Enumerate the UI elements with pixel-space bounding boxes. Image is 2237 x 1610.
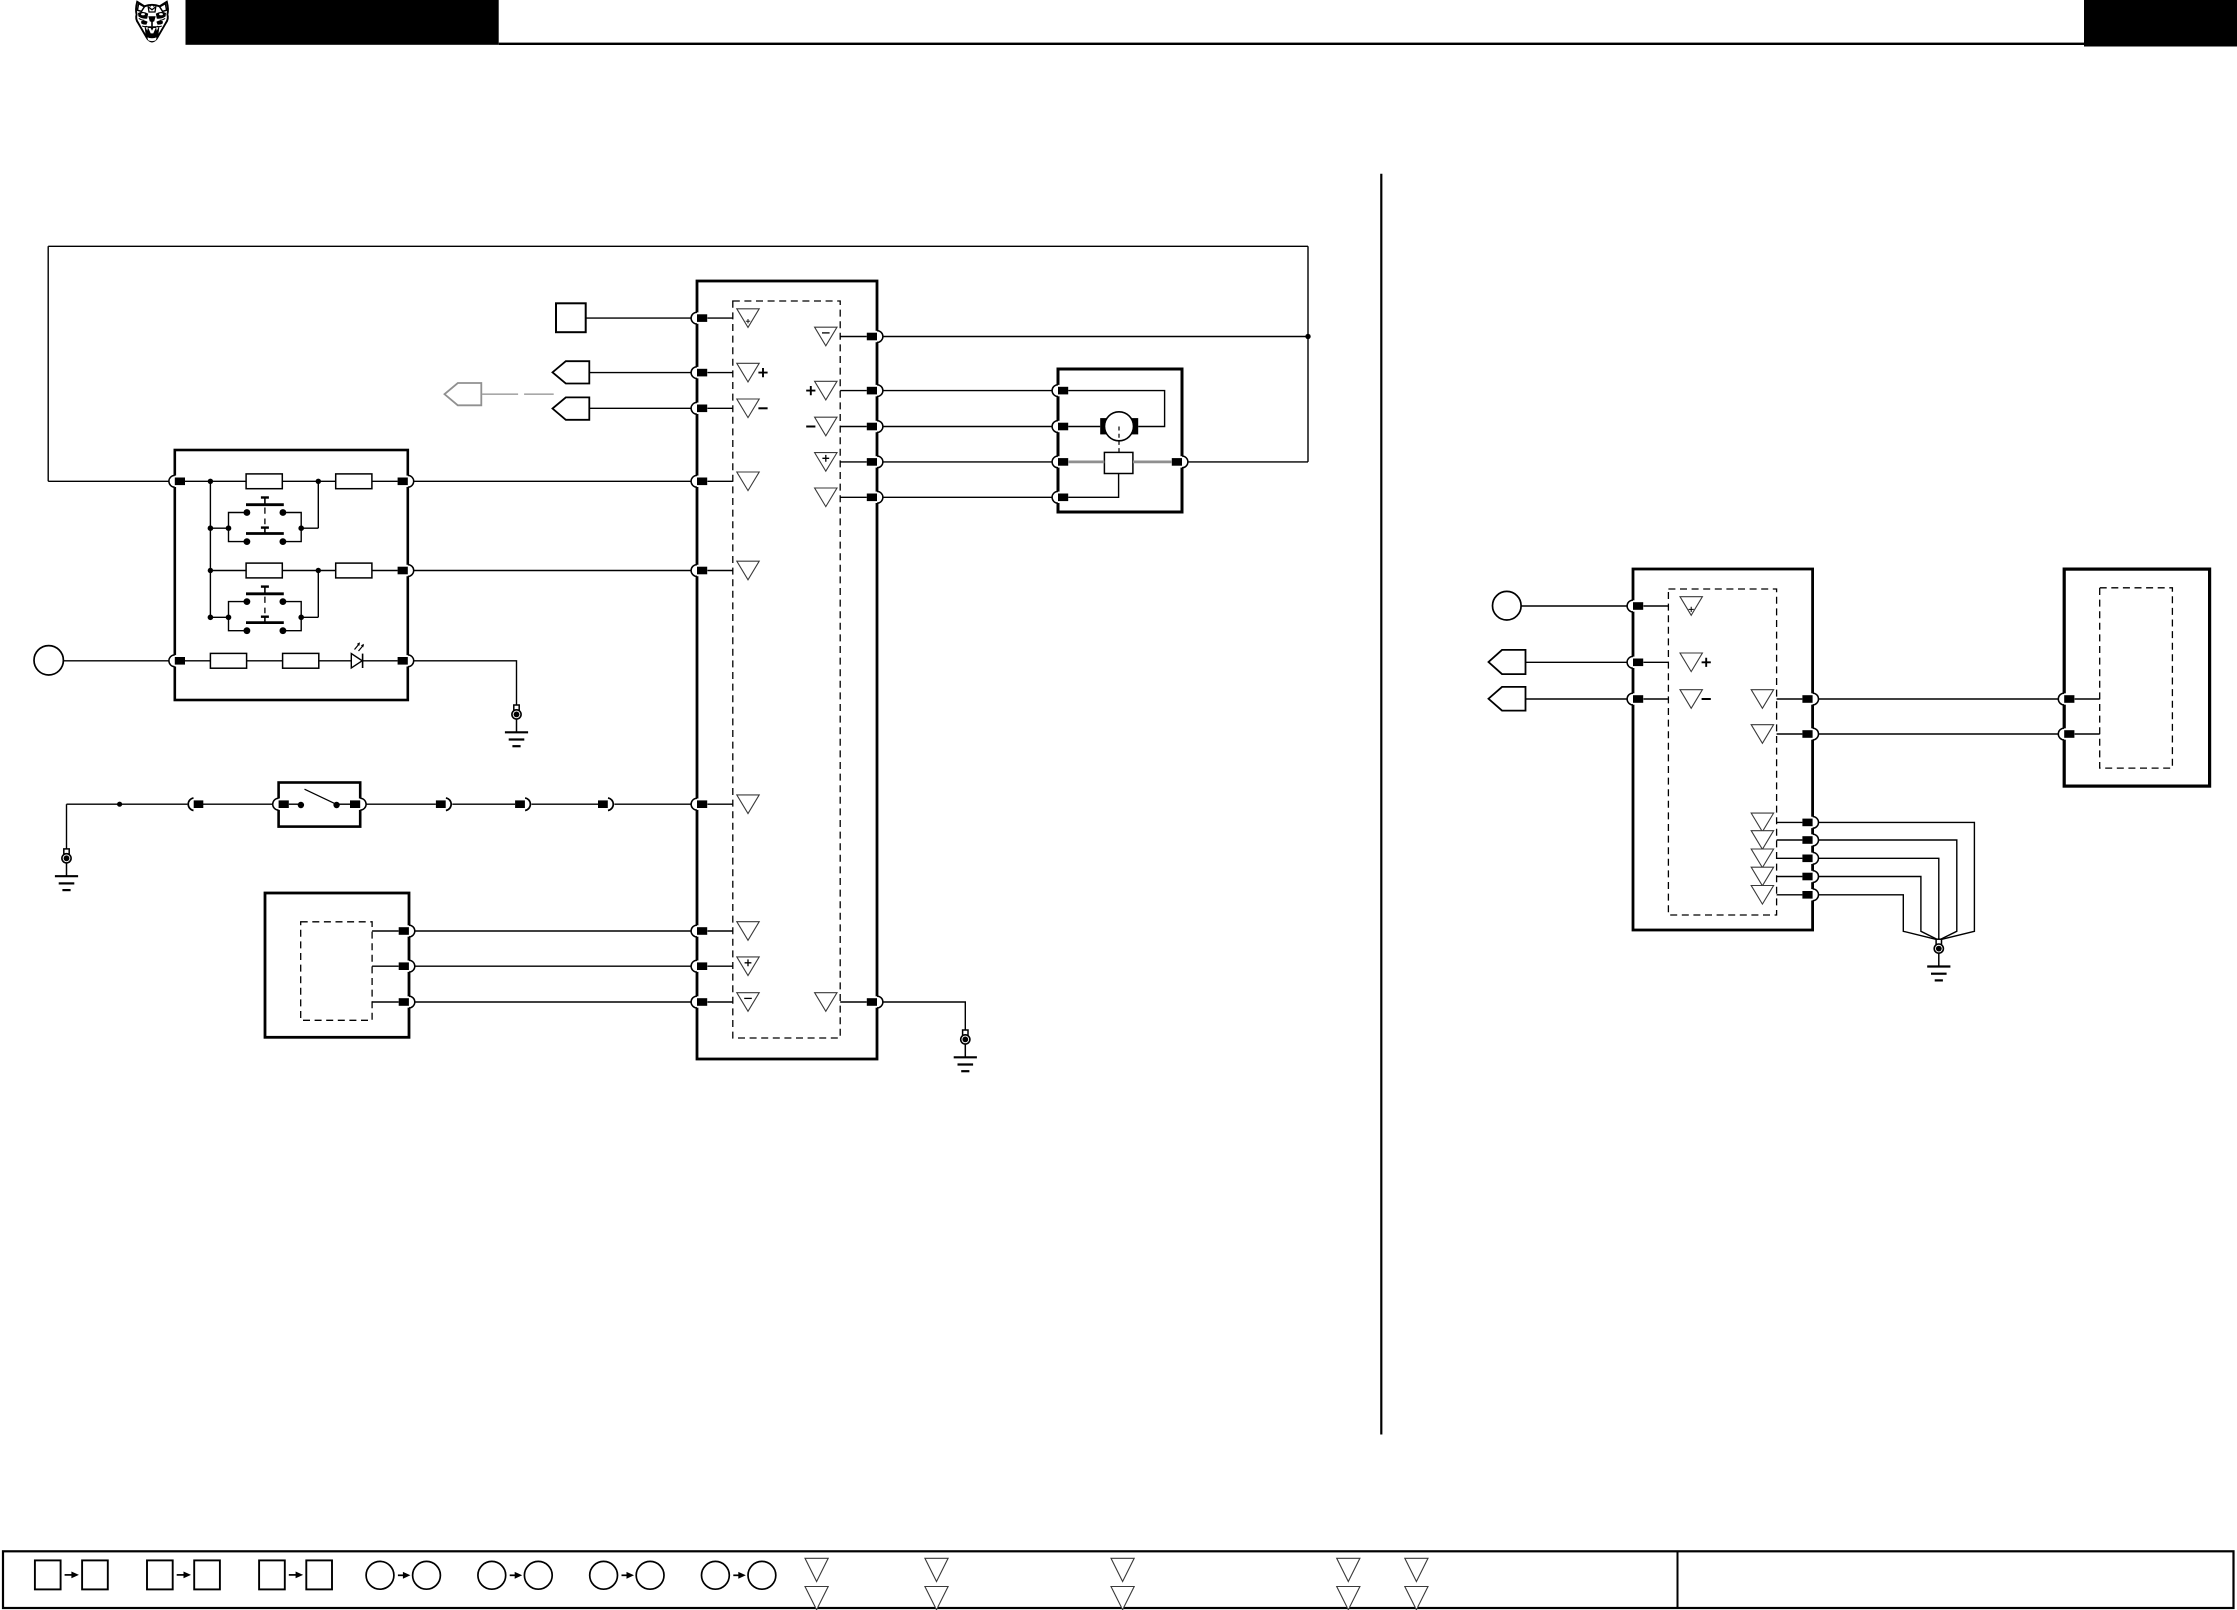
- wire: SW1 row2 to U1 pin5: [414, 570, 691, 572]
- wire: U1 internal lead left pin 9: [707, 1001, 732, 1003]
- wire: ground drop at left: [66, 804, 68, 849]
- wire: eyelet to SW1 row3: [63, 660, 168, 662]
- wire: S2 left stub to bus: [210, 616, 228, 618]
- wire: SW1 row1 to U1 pin4: [414, 480, 691, 482]
- pin: B1 right pin 1: [399, 925, 415, 937]
- wire: U1 internal lead left pin 1: [707, 317, 732, 319]
- pin: SW1 left pin row3: [169, 655, 185, 667]
- connector: eyelet circle right section: [1493, 591, 1522, 620]
- legend: pin symbol column 1: [805, 1558, 828, 1581]
- legend: circle connector pair 1: [366, 1561, 394, 1589]
- ground G4 (module U2 grounds): [1927, 939, 1950, 980]
- wire: SW2 internal left: [289, 803, 301, 805]
- pin: SW2 left: [273, 798, 289, 810]
- wire: B1 pin 3 to U1: [415, 1001, 691, 1003]
- motor drive unit square: [1104, 452, 1133, 473]
- switch S1 contact studs: [244, 509, 251, 516]
- U1 pin symbol triangle, left col row8 (+ inside): [737, 957, 759, 976]
- wire: SW1 row3 LED to right pin: [363, 660, 398, 662]
- wire: loop bottom to motor assembly pin: [1188, 461, 1308, 463]
- connector: eyelet circle (illumination feed): [34, 646, 63, 675]
- legend: pin symbol column 3: [1111, 1558, 1134, 1581]
- wire: U2 ground 5 fan: [1819, 895, 1937, 940]
- U1 pin symbol triangle, right col row6: [815, 993, 837, 1012]
- wire: feed loop top: [48, 245, 1308, 247]
- switch S2 actuator T-bar: [261, 585, 269, 587]
- wire: eyelet to U2 pin1: [1521, 605, 1627, 607]
- wire: U1 to motor pin2: [883, 426, 1052, 428]
- U1 pin symbol triangle, right col row4 (+ inside): [815, 453, 837, 472]
- switch S1 lower contact: [261, 526, 269, 528]
- pin: B1 right pin 2: [399, 960, 415, 972]
- wire: C3 to C4: [532, 803, 599, 805]
- resistor SW1-R6: [283, 653, 319, 668]
- connector: pigtail arrow lower: [553, 397, 590, 419]
- pin: U2 ground pin 3: [1802, 852, 1818, 864]
- resistor SW1-R2: [336, 474, 372, 489]
- node: SW1 row1 left junction: [208, 479, 213, 484]
- wire: motor drive unit to pin4: [1068, 474, 1118, 498]
- U2 pin symbol triangle, ground group row3: [1751, 849, 1773, 868]
- U1 pin symbol triangle, right col row5: [815, 488, 837, 507]
- legend: circle connector pair 3: [590, 1561, 618, 1589]
- node: SW1 row2 right junction: [316, 568, 321, 573]
- pin: U1 right pin 2: [867, 385, 883, 397]
- LED D1 (illumination): [351, 654, 362, 668]
- wire: U2 internal lead left 1: [1643, 605, 1668, 607]
- wire: SW1 row2 internal: [210, 570, 246, 572]
- legend: square connector pair 2: [147, 1560, 173, 1589]
- legend: square connector pair 3: [259, 1560, 285, 1589]
- pin: U1 right pin 6: [867, 996, 883, 1008]
- wire: U1 internal lead right pin 4: [840, 461, 867, 463]
- U1 pin symbol triangle, left col row4: [737, 472, 759, 491]
- wire: B2 internal lead 2: [2075, 733, 2100, 735]
- wire: U1 to motor pin1: [883, 390, 1052, 392]
- pin: SW1 left pin row1: [169, 475, 185, 487]
- connector C1 (inline, arc-square): [188, 798, 203, 811]
- U1 pin symbol triangle, left col row9 (- inside): [737, 993, 759, 1012]
- wire: S1 right stub: [301, 527, 318, 529]
- node: SW2 contact left: [298, 802, 304, 808]
- header title bar (black): [186, 0, 499, 45]
- wire: S2 right bracket: [283, 602, 301, 631]
- U1 pin symbol triangle, left col row7: [737, 922, 759, 941]
- pin: motor right pin: [1172, 456, 1188, 468]
- node: SW1 row1 right junction: [316, 479, 321, 484]
- wire: arrow to U2 pin3: [1526, 698, 1628, 700]
- U2 pin symbol triangle, right col row1: [1751, 690, 1773, 709]
- section divider line: [1380, 174, 1382, 1435]
- U2 pin symbol triangle, ground group row5: [1751, 886, 1773, 905]
- wire: U2 internal lead ground 5: [1777, 894, 1803, 896]
- wire: SW1 row1 R2 to right pin: [372, 480, 398, 482]
- pin: SW1 right pin row3: [398, 655, 414, 667]
- wire: C4 to U1 pin6: [614, 803, 691, 805]
- pin: U2 right pin 2: [1802, 728, 1818, 740]
- wire: S1 left stub to bus: [210, 527, 228, 529]
- wire: U1 internal lead right pin 6: [840, 1001, 867, 1003]
- wire: S1 riser to row1: [317, 481, 319, 528]
- pin: U1 left pin 5: [691, 565, 707, 577]
- U1 pin symbol triangle, left col row6: [737, 795, 759, 814]
- wire: B1 internal lead 1: [372, 930, 399, 932]
- wire: B1 pin 1 to U1: [415, 930, 691, 932]
- U2 pin symbol triangle, ground group row2: [1751, 831, 1773, 850]
- switch SW2 (door ajar) outline: [279, 783, 361, 827]
- module U2 internal dashed boundary: [1668, 589, 1776, 915]
- legend frame: [3, 1551, 2234, 1608]
- connector: pigtail arrow upper: [553, 361, 590, 383]
- wire: U2 ground 4 fan: [1819, 877, 1938, 940]
- ground G1 (switchpack illumination): [505, 705, 528, 746]
- wire: U2 ground 3 fan: [1819, 858, 1939, 939]
- wire: SW2 internal right: [336, 803, 350, 805]
- pin: SW1 right pin row1: [398, 475, 414, 487]
- wire: U2 internal lead ground 4: [1777, 876, 1803, 878]
- wire: B1 pin 2 to U1: [415, 965, 691, 967]
- legend: pin symbol column 2: [925, 1558, 948, 1581]
- U1 pin symbol triangle, right col row3 (-): [815, 417, 837, 436]
- wire: SW1 left bus vertical: [209, 481, 211, 617]
- wire: U2 internal lead left 2: [1643, 661, 1668, 663]
- connector: pigtail arrow U2 lower: [1489, 687, 1526, 711]
- wire: U2 internal lead right 1: [1777, 698, 1803, 700]
- motor M rotor circle: [1105, 412, 1134, 441]
- wire: U1 internal lead left pin 5: [707, 570, 732, 572]
- wire: U1 internal lead right pin 5: [840, 496, 867, 498]
- module U2 (passenger window module) outline: [1633, 569, 1813, 930]
- wire: S2 right stub: [301, 616, 318, 618]
- wire: motor position feed right (grey): [1133, 460, 1172, 463]
- pin: U1 right pin 5: [867, 491, 883, 503]
- switch S2 movable contact bar: [246, 592, 284, 595]
- wire: grey dashed link: [482, 393, 554, 395]
- wire: U2 to regulator B2 row2: [1819, 733, 2059, 735]
- module U1 internal dashed boundary: [733, 301, 840, 1038]
- switch S2 linkage dashed: [264, 597, 266, 614]
- header rule: [499, 43, 2084, 45]
- switchpack SW1 outline: [175, 450, 408, 700]
- wire: ground run to inline connector C1: [67, 803, 188, 805]
- U2 pin symbol triangle, left col row3 (-): [1680, 690, 1702, 709]
- wire: C2 to C3: [452, 803, 515, 805]
- Jaguar growler logo: [136, 2, 168, 42]
- wire: upper arrow to U1 pin2: [589, 372, 691, 374]
- switch S2 lower contact: [261, 616, 269, 618]
- pin: U2 right pin 1: [1802, 693, 1818, 705]
- wire: SW1 row1 internal: [185, 480, 246, 482]
- wire: U1 internal lead right pin 1: [840, 336, 867, 338]
- pin: motor left pin 3: [1052, 456, 1068, 468]
- U1 pin symbol triangle, left col row3 (-): [737, 399, 759, 418]
- U1 pin symbol triangle, left col row5: [737, 561, 759, 580]
- wire: SW1 row2 R4 to right pin: [372, 570, 398, 572]
- node: splice on ground run: [117, 802, 122, 807]
- pin: U2 ground pin 5: [1802, 889, 1818, 901]
- resistor SW1-R5: [210, 653, 246, 668]
- legend: circle connector pair 2: [478, 1561, 506, 1589]
- switch SW2 blade: [305, 789, 336, 804]
- wire: feed loop right side: [1307, 246, 1309, 462]
- wire: S2 riser to row2: [317, 571, 319, 618]
- switch S2 contact studs: [244, 598, 251, 605]
- pin: U1 right pin 1: [867, 331, 883, 343]
- resistor SW1-R1: [246, 474, 282, 489]
- wire: U1 internal lead left pin 3: [707, 407, 732, 409]
- pin: U1 left pin 3: [691, 402, 707, 414]
- motor drive linkage dashed: [1118, 427, 1120, 453]
- U1 pin symbol triangle, left col row2 (+): [737, 363, 759, 382]
- wire: U1 internal lead right pin 3: [840, 426, 867, 428]
- node: SW2 contact right: [333, 802, 339, 808]
- U1 pin symbol triangle, right col row2 (+): [815, 381, 837, 400]
- motor brush right: [1131, 418, 1138, 434]
- pin: motor left pin 1: [1052, 385, 1068, 397]
- connector: ghost arrow (grey): [445, 383, 482, 405]
- wire: U1 internal lead right pin 2: [840, 390, 867, 392]
- node: SW1 row2 left junction: [208, 568, 213, 573]
- U2 pin symbol triangle, left col row1 (+ inside): [1680, 597, 1702, 616]
- U2 pin symbol triangle, ground group row1: [1751, 813, 1773, 832]
- pin: U1 left pin 4: [691, 475, 707, 487]
- motor assembly M1 outline: [1058, 369, 1182, 512]
- wire: U2 internal lead left 3: [1643, 698, 1668, 700]
- wire: feed loop left side: [47, 246, 49, 481]
- pin: U1 left pin 8: [691, 960, 707, 972]
- connector C4 (inline, square-arc): [598, 798, 613, 811]
- wire: SW2 to connector C2: [366, 803, 436, 805]
- legend divider: [1677, 1551, 1679, 1608]
- wire: S2 left bracket: [229, 602, 247, 631]
- wire: SW1 row3 R6 to LED: [319, 660, 352, 662]
- wire: U2 ground 1 fan: [1819, 822, 1975, 939]
- legend: pin symbol column 4: [1337, 1558, 1360, 1581]
- wire: C1 to ajar switch SW2: [203, 803, 273, 805]
- pin: U1 left pin 7: [691, 925, 707, 937]
- regulator unit B2 outline: [2064, 569, 2209, 786]
- wire: U1 to motor pin4: [883, 496, 1052, 498]
- pin: SW1 right pin row2: [398, 565, 414, 577]
- wire: U1 to motor pin3: [883, 461, 1052, 463]
- wire: U1 internal lead left pin 4: [707, 480, 732, 482]
- wire: SW1 row3 to ground drop: [414, 661, 517, 705]
- header page-number box (black): [2084, 0, 2237, 47]
- wire: U2 internal lead right 2: [1777, 733, 1803, 735]
- U1 pin symbol triangle, left col row1 (+ inside): [737, 309, 759, 328]
- pin: U2 ground pin 4: [1802, 871, 1818, 883]
- pin: U1 right pin 3: [867, 421, 883, 433]
- wire: SW1 row3 R5-R6: [247, 660, 283, 662]
- wire: SW1 row1 R1-R2: [282, 480, 335, 482]
- pin: U2 ground pin 1: [1802, 817, 1818, 829]
- connector C2 (inline, square-arc): [436, 798, 451, 811]
- wire: U2 to regulator B2 row1: [1819, 698, 2059, 700]
- U2 pin symbol triangle, right col row2: [1751, 725, 1773, 744]
- pin: U2 ground pin 2: [1802, 834, 1818, 846]
- pin: U2 left pin 3: [1627, 693, 1643, 705]
- pin: U1 left pin 9: [691, 996, 707, 1008]
- motor brush left: [1100, 418, 1107, 434]
- connector: fuse feed square: [556, 303, 586, 332]
- resistor SW1-R3: [246, 563, 282, 578]
- pin: motor left pin 4: [1052, 491, 1068, 503]
- switch S1 linkage dashed: [264, 508, 266, 525]
- wire: U1 internal lead left pin 8: [707, 965, 732, 967]
- pin: B1 right pin 3: [399, 996, 415, 1008]
- wire: arrow to U2 pin2: [1526, 661, 1628, 663]
- wire: U1 internal lead left pin 2: [707, 372, 732, 374]
- pin: U1 left pin 6: [691, 798, 707, 810]
- connector: pigtail arrow U2 upper: [1489, 650, 1526, 674]
- legend: circle connector pair 4: [702, 1561, 730, 1589]
- regulator unit B2 dashed boundary: [2100, 588, 2173, 768]
- resistor SW1-R4: [336, 563, 372, 578]
- U2 pin symbol triangle, ground group row4: [1751, 867, 1773, 886]
- wire: B2 internal lead 1: [2075, 698, 2100, 700]
- pin: U2 left pin 1: [1627, 600, 1643, 612]
- latch unit B1 dashed boundary: [301, 922, 372, 1021]
- pin: U1 right pin 4: [867, 456, 883, 468]
- latch unit B1 outline: [265, 893, 409, 1037]
- pin: motor left pin 2: [1052, 421, 1068, 433]
- pin: B2 left pin 1: [2058, 693, 2074, 705]
- ground G3 (module U1 ground): [954, 1030, 977, 1071]
- U2 pin symbol triangle, left col row2 (+): [1680, 653, 1702, 672]
- wire: U2 internal lead ground 3: [1777, 857, 1803, 859]
- wire: S1 left bracket: [229, 513, 247, 542]
- switch S1 movable contact bar: [246, 503, 284, 506]
- module U1 (door/window control module) outline: [697, 281, 877, 1059]
- pin: SW2 right: [350, 798, 366, 810]
- connector C3 (inline, square-arc): [515, 798, 530, 811]
- wire: fuse square to U1 pin1: [586, 317, 691, 319]
- pin: U1 left pin 1: [691, 312, 707, 324]
- switch S1 actuator T-bar: [261, 496, 269, 498]
- pin: U2 left pin 2: [1627, 656, 1643, 668]
- wire: motor position feed left (grey): [1068, 460, 1104, 463]
- ground G2 (door ajar switch ground): [55, 849, 78, 890]
- wire: module pin to feed loop junction: [883, 336, 1308, 338]
- wire: SW1 row3 internal: [185, 660, 210, 662]
- legend: pin symbol column 5: [1405, 1558, 1428, 1581]
- wire: motor internal pin1 loop: [1068, 391, 1164, 427]
- wire: B1 internal lead 3: [372, 1001, 399, 1003]
- wire: U1 internal lead left pin 7: [707, 930, 732, 932]
- wire: U2 ground 2 fan: [1819, 840, 1957, 939]
- wire: B1 internal lead 2: [372, 965, 399, 967]
- pin: U1 left pin 2: [691, 367, 707, 379]
- node: junction of module output and feed loop: [1305, 334, 1310, 339]
- wire: U1 ground pin run: [883, 1002, 965, 1030]
- wire: SW1 row2 R3-R4: [282, 570, 335, 572]
- wire: U1 internal lead left pin 6: [707, 803, 732, 805]
- pin: B2 left pin 2: [2058, 728, 2074, 740]
- wire: lower arrow to U1 pin3: [589, 407, 691, 409]
- legend: square connector pair 1: [35, 1560, 61, 1589]
- wire: U2 internal lead ground 1: [1777, 821, 1803, 823]
- wire: U2 internal lead ground 2: [1777, 839, 1803, 841]
- wire: motor internal pin2 to brush: [1068, 426, 1100, 428]
- wire: S1 right bracket: [283, 513, 301, 542]
- U1 pin symbol triangle, right col row1 (- inside): [815, 327, 837, 346]
- wire: loop to driver door switchpack pin 1: [48, 480, 169, 482]
